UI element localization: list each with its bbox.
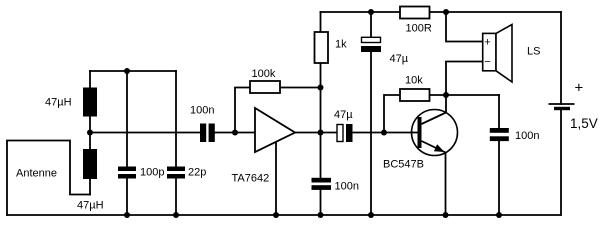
svg-text:100n: 100n xyxy=(515,130,539,142)
node collector junction xyxy=(443,92,449,98)
svg-text:100n: 100n xyxy=(335,181,359,193)
wire L1 bottom lead xyxy=(89,117,91,133)
node IC input xyxy=(232,130,238,136)
resistor R2 100k xyxy=(250,81,280,93)
svg-text:+: + xyxy=(575,79,584,96)
svg-text:100R: 100R xyxy=(406,23,432,35)
wire antenna loop xyxy=(7,141,90,216)
svg-text:22p: 22p xyxy=(188,167,206,179)
node ground C1 xyxy=(124,212,130,218)
node supply speaker xyxy=(443,9,449,15)
node ground C5 xyxy=(318,212,324,218)
wire IC output xyxy=(295,132,337,134)
capacitor C4 47µ xyxy=(337,124,353,142)
wire IC ground pin xyxy=(275,142,277,215)
wire C1 bottom lead xyxy=(126,179,128,216)
wire speaker plus xyxy=(446,12,483,42)
capacitor C1 100p xyxy=(118,167,136,179)
wire C1 top lead xyxy=(126,71,128,167)
wire L2 top lead xyxy=(89,133,91,150)
wire 1k top lead xyxy=(320,12,322,32)
svg-text:47µ: 47µ xyxy=(390,53,409,65)
svg-text:47µH: 47µH xyxy=(77,200,104,212)
svg-text:TA7642: TA7642 xyxy=(232,173,270,185)
svg-text:LS: LS xyxy=(527,46,540,58)
node ground C7 xyxy=(496,212,502,218)
wire C5 bottom lead xyxy=(320,190,322,215)
wire 100k left leg xyxy=(235,88,250,133)
capacitor C3 100n xyxy=(200,124,215,143)
svg-text:47µH: 47µH xyxy=(45,97,72,109)
node ground IC xyxy=(273,212,279,218)
node ground C6 xyxy=(368,212,374,218)
battery BT1 1,5V xyxy=(549,104,575,109)
wire 10k left leg xyxy=(384,95,400,133)
node junction dots xyxy=(87,9,502,218)
wire 1k bottom lead xyxy=(320,63,322,133)
svg-text:Antenne: Antenne xyxy=(16,168,57,180)
svg-text:1,5V: 1,5V xyxy=(570,116,598,131)
wire C2 top lead xyxy=(175,71,177,167)
svg-text:BC547B: BC547B xyxy=(383,159,424,171)
svg-text:10k: 10k xyxy=(405,75,423,87)
wire C4 to base xyxy=(353,132,418,134)
svg-text:100n: 100n xyxy=(190,105,214,117)
svg-text:−: − xyxy=(484,56,490,68)
wire tank top xyxy=(90,70,176,72)
svg-text:1k: 1k xyxy=(335,39,347,51)
capacitor C2 22p xyxy=(167,167,185,179)
wire L1 top lead xyxy=(89,71,91,88)
node 100k-1k junction xyxy=(318,85,324,91)
node ground emitter xyxy=(443,212,449,218)
wire battery bottom lead xyxy=(560,110,562,215)
wire signal input xyxy=(90,132,200,134)
inductor L2 47µH xyxy=(83,149,97,179)
wire top rail left xyxy=(321,11,401,13)
transistor Q1 BC547B xyxy=(412,110,458,156)
wire speaker minus xyxy=(446,62,483,96)
wire C7 bottom lead xyxy=(498,141,500,215)
wire collector lead xyxy=(445,95,447,113)
node coil tap xyxy=(87,130,93,136)
resistor R4 10k xyxy=(400,89,430,101)
svg-text:47µ: 47µ xyxy=(334,109,353,121)
wire top rail right xyxy=(430,11,562,13)
wire C6 bottom lead xyxy=(370,52,372,215)
wire battery top lead xyxy=(560,12,562,104)
wire ground rail xyxy=(7,214,560,216)
capacitor C6 47µ xyxy=(361,37,381,52)
wire L2 bottom lead xyxy=(89,179,91,195)
node IC output xyxy=(318,130,324,136)
svg-text:100k: 100k xyxy=(252,68,276,80)
node base junction xyxy=(381,130,387,136)
wire 10k right leg xyxy=(429,94,499,96)
wire 100k right leg xyxy=(280,87,321,89)
speaker LS xyxy=(483,25,512,83)
svg-text:+: + xyxy=(484,36,490,48)
wire C7 top lead xyxy=(498,95,500,128)
capacitor C7 100n xyxy=(490,128,509,141)
resistor R1 1k xyxy=(315,32,329,63)
resistor R3 100R xyxy=(400,7,430,19)
node supply C6 xyxy=(368,9,374,15)
capacitor C5 100n xyxy=(312,178,332,190)
wire C3 to IC input xyxy=(215,132,255,134)
wire C5 top lead xyxy=(320,133,322,179)
svg-text:100p: 100p xyxy=(140,167,164,179)
op-amp U1 TA7642 xyxy=(255,108,295,152)
inductor L1 47µH xyxy=(83,88,97,117)
node tank top junction xyxy=(124,68,130,74)
node ground C2 xyxy=(173,212,179,218)
wire C6 top lead xyxy=(370,12,372,37)
wire C2 bottom lead xyxy=(175,179,177,216)
wire emitter lead xyxy=(445,153,447,216)
